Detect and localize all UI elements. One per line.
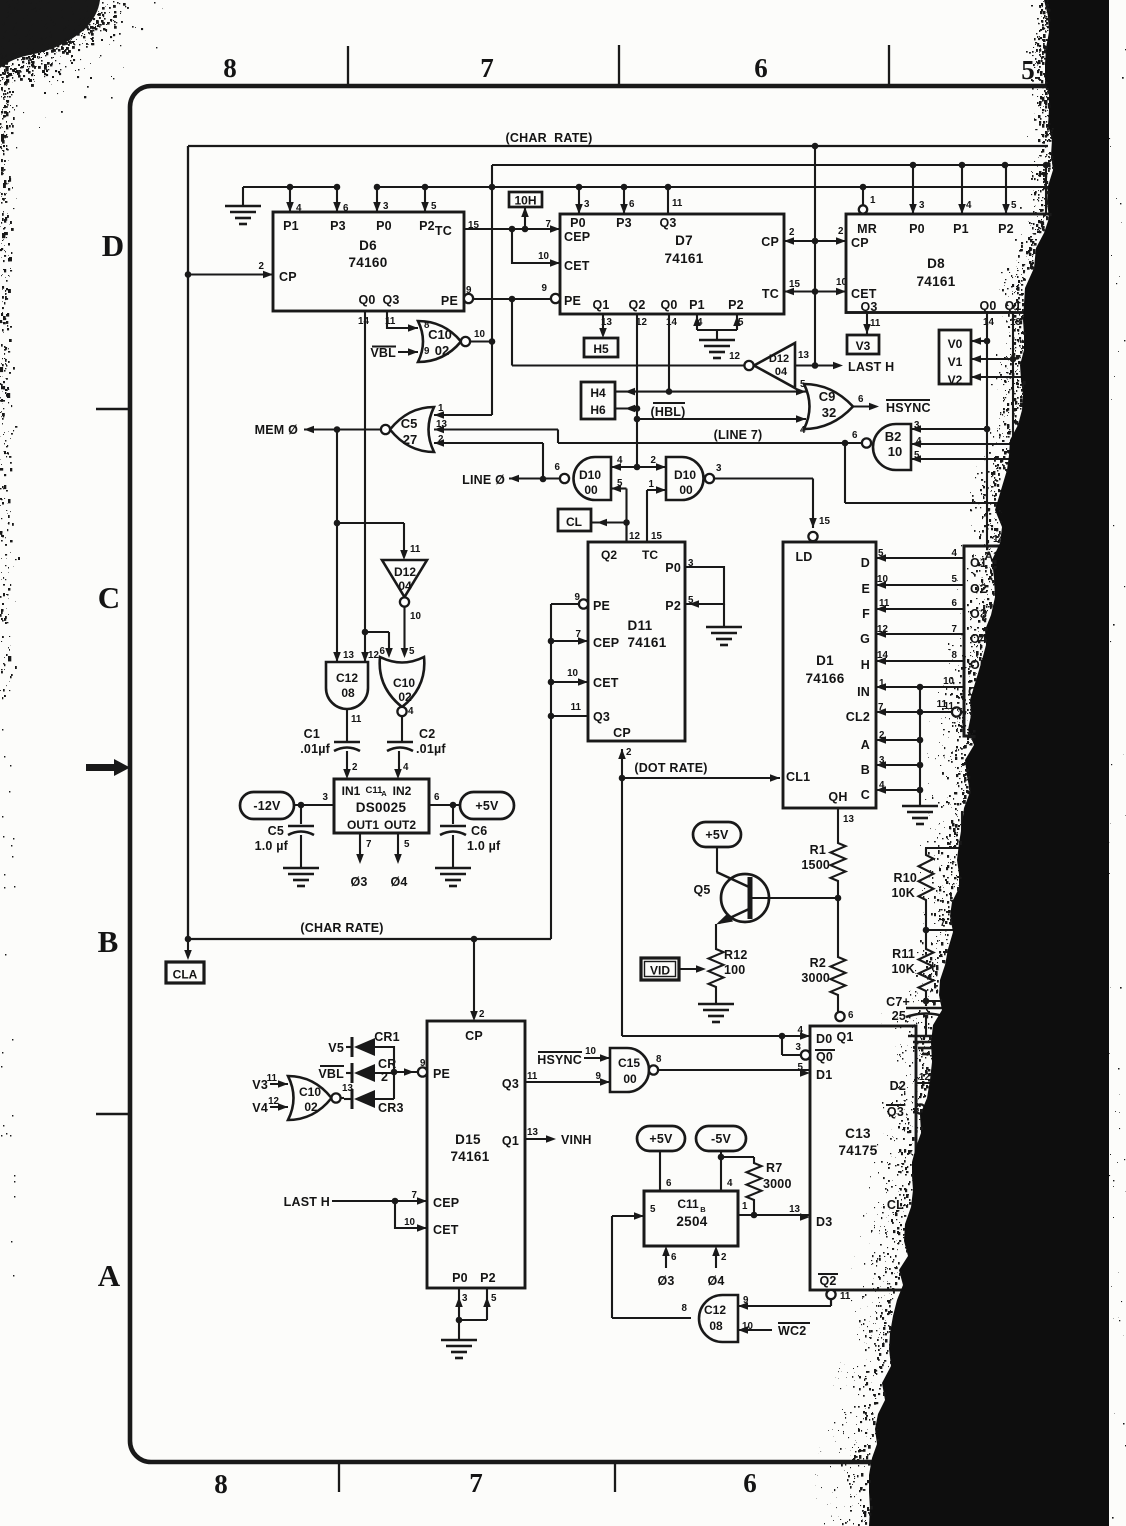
wire D6 CP xyxy=(185,271,273,279)
wire D11 CEP xyxy=(551,637,588,645)
wire D7 preset taps xyxy=(575,187,668,214)
wire G to O4 xyxy=(876,630,964,638)
nor-gate C5 27 (MEM phase) xyxy=(381,403,448,452)
svg-text:1: 1 xyxy=(870,195,876,206)
svg-text:E: E xyxy=(861,582,870,596)
wire to CLA xyxy=(184,939,192,960)
wire branch to C10 pin6 xyxy=(365,632,393,658)
capacitor C5 1.0uf xyxy=(255,805,314,868)
wire D15 P0/P2 to ground xyxy=(455,1288,491,1340)
svg-text:C12: C12 xyxy=(336,671,358,685)
svg-text:TC: TC xyxy=(642,548,658,562)
svg-text:.01µf: .01µf xyxy=(416,742,446,756)
svg-text:1: 1 xyxy=(742,1201,748,1212)
wire D0 run xyxy=(622,1035,782,1037)
svg-text:10: 10 xyxy=(538,251,549,262)
svg-text:5: 5 xyxy=(491,1293,497,1304)
svg-text:5: 5 xyxy=(1011,200,1017,211)
node LINE phase xyxy=(462,473,560,487)
svg-text:R12: R12 xyxy=(724,948,748,962)
wire A tap xyxy=(876,736,923,744)
wire C5 pin13 (from B2) xyxy=(434,426,558,443)
wire D7 P1 P2 to ground xyxy=(693,314,741,340)
svg-text:9: 9 xyxy=(542,283,548,294)
resistor R7 3000 xyxy=(721,1157,792,1218)
svg-text:2: 2 xyxy=(352,762,358,773)
svg-text:G: G xyxy=(860,632,870,646)
svg-text:C5: C5 xyxy=(401,416,418,431)
wire V2 xyxy=(971,373,1032,381)
svg-text:LINE Ø: LINE Ø xyxy=(462,473,505,487)
wire D8 preset taps xyxy=(909,165,1046,214)
svg-text:P0: P0 xyxy=(909,222,925,236)
svg-text:10K: 10K xyxy=(891,962,915,976)
capacitor C2 .01uf xyxy=(387,727,446,756)
node 10H xyxy=(509,192,542,208)
svg-text:D3: D3 xyxy=(816,1215,832,1229)
svg-text:25: 25 xyxy=(892,1009,906,1023)
flip-flop C13 74175 xyxy=(789,1010,939,1302)
wire D11 Q3 xyxy=(551,715,588,717)
svg-text:H4: H4 xyxy=(590,386,606,400)
svg-text:V5: V5 xyxy=(328,1041,344,1055)
wire CL xyxy=(916,1201,955,1203)
svg-text:Q5: Q5 xyxy=(693,883,710,897)
wire R10 top xyxy=(925,812,965,851)
resistor R12 100 xyxy=(709,946,748,990)
power -5V (2504) xyxy=(696,1126,746,1151)
svg-text:74161: 74161 xyxy=(664,251,703,266)
svg-text:6: 6 xyxy=(848,1010,854,1021)
svg-text:PE: PE xyxy=(433,1067,450,1081)
svg-text:2: 2 xyxy=(651,455,657,466)
wire -12V to pin3 xyxy=(294,792,334,808)
svg-text:C11: C11 xyxy=(677,1197,699,1211)
svg-text:D11: D11 xyxy=(628,618,653,633)
svg-text:74175: 74175 xyxy=(838,1143,877,1158)
svg-text:C9: C9 xyxy=(819,389,836,404)
svg-text:R2: R2 xyxy=(810,956,826,970)
svg-text:P2: P2 xyxy=(480,1271,496,1285)
svg-text:MEM Ø: MEM Ø xyxy=(255,423,298,437)
node VINH xyxy=(525,1133,592,1147)
svg-text:14: 14 xyxy=(666,317,677,328)
diode CR2 xyxy=(318,1057,396,1084)
wire QH to R1 xyxy=(838,808,854,840)
ground (D11 P2) xyxy=(706,627,742,645)
wire C12b pin9 xyxy=(738,1299,831,1310)
node VBL input xyxy=(370,346,418,360)
ground (C7) xyxy=(908,1036,944,1054)
svg-text:Q3: Q3 xyxy=(887,1105,904,1119)
svg-text:CL2: CL2 xyxy=(846,710,870,724)
svg-text:2: 2 xyxy=(838,226,844,237)
and-gate C12 08 (phase A) xyxy=(326,650,379,725)
svg-text:+5V: +5V xyxy=(475,799,499,813)
wire +5V to pin6 xyxy=(660,1151,672,1191)
svg-text:D15: D15 xyxy=(455,1132,481,1147)
svg-text:1.0 µf: 1.0 µf xyxy=(255,839,289,853)
svg-text:C7+: C7+ xyxy=(886,995,910,1009)
ground (R12) xyxy=(698,1004,734,1022)
svg-text:CP: CP xyxy=(465,1029,483,1043)
svg-text:9: 9 xyxy=(424,346,430,357)
svg-text:7: 7 xyxy=(412,1190,418,1201)
node phase 3 output xyxy=(350,833,372,889)
wire V0 from Q0 xyxy=(971,337,987,345)
svg-text:-5V: -5V xyxy=(711,1132,732,1146)
svg-text:P1: P1 xyxy=(283,219,299,233)
svg-text:4: 4 xyxy=(727,1178,733,1189)
wire D8 Q1 column xyxy=(1010,313,1017,547)
svg-text:12: 12 xyxy=(629,531,640,542)
svg-text:12: 12 xyxy=(729,351,740,362)
svg-text:Q2: Q2 xyxy=(628,298,645,312)
wire diode bus to PE xyxy=(391,1046,426,1099)
svg-text:3: 3 xyxy=(919,200,925,211)
svg-text:F: F xyxy=(862,607,870,621)
svg-text:P0: P0 xyxy=(376,219,392,233)
svg-text:OUT1: OUT1 xyxy=(347,818,379,832)
wire LINE7 branch down xyxy=(845,443,1012,503)
svg-text:Q2: Q2 xyxy=(601,548,617,562)
wire Q3bar xyxy=(925,1108,960,1110)
capacitor C6 1.0uf xyxy=(440,805,501,868)
svg-text:6: 6 xyxy=(666,1178,672,1189)
svg-text:D1: D1 xyxy=(816,653,834,668)
node V3 input xyxy=(252,1078,288,1092)
wire B2 pin3 xyxy=(911,425,987,433)
wire LINE7 net xyxy=(558,428,862,446)
wire D10b output to LD xyxy=(714,479,817,529)
svg-text:5: 5 xyxy=(409,646,415,657)
svg-text:R7: R7 xyxy=(766,1161,782,1175)
wire CHAR RATE bottom run xyxy=(185,921,551,942)
svg-text:C5: C5 xyxy=(268,824,284,838)
inverter D12 04 (dot clock) xyxy=(382,544,427,622)
svg-text:00: 00 xyxy=(584,483,598,497)
wire CP to D15 xyxy=(470,939,478,1021)
svg-text:V0: V0 xyxy=(948,337,963,351)
wire B2 pin4 xyxy=(911,440,1013,448)
svg-text:7: 7 xyxy=(546,219,552,230)
svg-text:P0: P0 xyxy=(452,1271,468,1285)
svg-text:V4: V4 xyxy=(252,1101,268,1115)
inverter D12 04 (LAST H) xyxy=(729,343,809,388)
svg-text:7: 7 xyxy=(469,1468,483,1498)
wire R1-R2 node xyxy=(835,884,842,954)
svg-text:CET: CET xyxy=(593,676,619,690)
svg-text:D12: D12 xyxy=(769,353,789,365)
svg-text:2: 2 xyxy=(626,747,632,758)
wire H6 tap xyxy=(615,405,637,413)
wire D10a pin5 xyxy=(611,485,630,542)
svg-text:CEP: CEP xyxy=(593,636,619,650)
wire pin6 to +5V xyxy=(429,792,460,808)
wire D6 Q0 column xyxy=(362,311,369,662)
wire R2 to Q1 xyxy=(837,998,839,1012)
svg-text:C10: C10 xyxy=(393,676,415,690)
svg-text:CL1: CL1 xyxy=(786,770,810,784)
wire C10 output to bus xyxy=(470,340,492,342)
svg-text:1500: 1500 xyxy=(801,858,830,872)
svg-text:11: 11 xyxy=(527,1071,538,1082)
and-gate C12 08 (write gate) xyxy=(682,1295,754,1342)
wire D0 feedback xyxy=(779,1032,810,1055)
node (HBL) xyxy=(650,403,685,419)
svg-text:6: 6 xyxy=(555,462,561,473)
svg-text:10: 10 xyxy=(474,329,485,340)
svg-text:02: 02 xyxy=(435,343,449,358)
svg-text:CET: CET xyxy=(564,259,590,273)
svg-text:D10: D10 xyxy=(674,468,696,482)
wire C10c output to CR3 xyxy=(341,1098,345,1099)
svg-text:2: 2 xyxy=(789,227,795,238)
svg-text:P1: P1 xyxy=(689,298,705,312)
svg-text:14: 14 xyxy=(358,316,369,327)
wire C9 pin4 net xyxy=(637,415,806,436)
svg-text:74160: 74160 xyxy=(348,255,387,270)
svg-text:04: 04 xyxy=(775,366,788,378)
wire B tap xyxy=(876,761,923,769)
svg-text:D0: D0 xyxy=(816,1032,832,1046)
svg-text:11: 11 xyxy=(571,702,582,713)
svg-text:D6: D6 xyxy=(359,238,377,253)
svg-text:Q1: Q1 xyxy=(502,1134,519,1148)
svg-text:LAST H: LAST H xyxy=(848,360,894,374)
wire C12a output xyxy=(346,709,348,741)
wire H to O5 xyxy=(876,657,964,665)
svg-text:11: 11 xyxy=(870,318,881,329)
ground (C5) xyxy=(283,868,319,886)
svg-text:A: A xyxy=(381,789,387,798)
svg-text:H: H xyxy=(861,658,870,672)
wire E to O2 xyxy=(876,581,964,589)
nand-gate D10 00 (LINE phase) xyxy=(555,455,623,500)
wire ABC column xyxy=(919,687,921,806)
svg-text:CLA: CLA xyxy=(173,968,198,982)
nand-gate C15 00 xyxy=(585,1046,662,1092)
ground (D1 inputs) xyxy=(902,806,938,824)
svg-text:CEP: CEP xyxy=(564,230,590,244)
wire R12 to ground xyxy=(715,990,717,1004)
svg-text:10: 10 xyxy=(410,611,421,622)
counter D11 74161 xyxy=(567,531,694,758)
wire V1 from Q1 xyxy=(971,355,1013,363)
svg-text:4: 4 xyxy=(966,200,972,211)
wire bus P-inputs lower (D6/D7/MR) xyxy=(243,184,1056,191)
wire C12a inputs arrows xyxy=(333,652,369,662)
svg-text:02: 02 xyxy=(398,690,412,704)
svg-text:5: 5 xyxy=(431,201,437,212)
svg-text:6: 6 xyxy=(858,394,864,405)
ground (D7 P1/P2) xyxy=(699,340,735,358)
svg-text:VBL: VBL xyxy=(370,346,396,360)
wire D8 MR tap xyxy=(862,187,864,205)
wire D7 Q2 column xyxy=(634,314,641,470)
svg-text:B2: B2 xyxy=(885,429,902,444)
svg-text:9: 9 xyxy=(420,1058,426,1069)
wire Q5 base xyxy=(753,897,839,899)
svg-text:CP: CP xyxy=(851,236,869,250)
wire H4 net (Q0 to C9 pin5) xyxy=(615,379,806,395)
svg-text:C15: C15 xyxy=(618,1056,640,1070)
svg-text:7: 7 xyxy=(366,839,372,850)
svg-text:32: 32 xyxy=(822,405,836,420)
svg-text:CL: CL xyxy=(566,515,582,529)
svg-text:CP: CP xyxy=(279,270,297,284)
nand-gate D10 00 (LD driver) xyxy=(649,455,722,500)
svg-text:00: 00 xyxy=(679,483,693,497)
svg-text:13: 13 xyxy=(343,650,354,661)
svg-text:+5V: +5V xyxy=(705,828,729,842)
svg-text:TC: TC xyxy=(435,224,452,238)
svg-text:10: 10 xyxy=(585,1046,596,1057)
svg-text:D8: D8 xyxy=(927,256,945,271)
svg-text:H6: H6 xyxy=(590,403,606,417)
power +5V (clock driver) xyxy=(460,792,514,819)
wire B2 output xyxy=(845,442,862,444)
svg-text:(CHAR RATE): (CHAR RATE) xyxy=(506,131,593,145)
power +5V (video) xyxy=(693,822,741,847)
svg-text:Q3: Q3 xyxy=(659,216,676,230)
wire D11 Q2 stub xyxy=(625,523,627,543)
svg-text:B: B xyxy=(861,763,870,777)
shift-register D1 74166 xyxy=(783,516,890,808)
ground (D15) xyxy=(441,1340,477,1358)
node DOT RATE xyxy=(622,761,780,782)
node V3 xyxy=(847,335,879,354)
svg-text:B: B xyxy=(98,924,119,959)
ground (D6 preset bus) xyxy=(225,187,261,224)
svg-text:74161: 74161 xyxy=(627,635,666,650)
svg-text:10: 10 xyxy=(943,676,954,687)
node WC2 input xyxy=(738,1323,810,1338)
svg-text:10: 10 xyxy=(567,668,578,679)
svg-text:Q3: Q3 xyxy=(502,1077,519,1091)
svg-text:(CHAR RATE): (CHAR RATE) xyxy=(300,921,383,935)
svg-text:8: 8 xyxy=(424,320,430,331)
svg-text:74161: 74161 xyxy=(450,1149,489,1164)
svg-text:Q1: Q1 xyxy=(836,1030,853,1044)
ground (C6) xyxy=(435,868,471,886)
svg-text:Q3: Q3 xyxy=(593,710,610,724)
svg-text:PE: PE xyxy=(441,294,458,308)
diode CR1 xyxy=(328,1030,400,1057)
svg-text:3: 3 xyxy=(716,463,722,474)
wire D10b pin2 xyxy=(637,463,666,471)
svg-text:13: 13 xyxy=(843,814,854,825)
svg-text:IN: IN xyxy=(857,685,870,699)
svg-text:P1: P1 xyxy=(953,222,969,236)
svg-text:11: 11 xyxy=(840,1291,851,1302)
wire C5 pin1 xyxy=(434,411,492,419)
node CLA xyxy=(166,962,204,983)
svg-text:OUT2: OUT2 xyxy=(384,818,416,832)
svg-text:D12: D12 xyxy=(394,565,416,579)
wire D7 Q0 column xyxy=(666,314,673,395)
wire D11 P0/P2 to ground xyxy=(685,567,724,627)
node V0 V1 V2 box xyxy=(939,330,971,387)
svg-text:5: 5 xyxy=(650,1204,656,1215)
svg-text:1: 1 xyxy=(649,479,655,490)
svg-text:74161: 74161 xyxy=(916,274,955,289)
wire dot-rate column to D0 xyxy=(621,778,623,1036)
svg-text:CP: CP xyxy=(613,726,631,740)
wire D10a pin4 xyxy=(611,463,637,471)
wire IN to GND pin xyxy=(876,683,964,691)
svg-text:HSYNC: HSYNC xyxy=(886,401,931,415)
svg-text:4: 4 xyxy=(296,203,302,214)
svg-text:A: A xyxy=(98,1258,121,1293)
svg-text:C12: C12 xyxy=(704,1303,726,1317)
svg-text:2: 2 xyxy=(259,261,265,272)
svg-text:P2: P2 xyxy=(998,222,1014,236)
svg-text:P2: P2 xyxy=(728,298,744,312)
transistor Q5 xyxy=(693,847,769,946)
svg-text:2504: 2504 xyxy=(676,1214,707,1229)
svg-text:12: 12 xyxy=(368,650,379,661)
wire D11 CET xyxy=(551,678,588,686)
svg-text:O4: O4 xyxy=(970,632,987,646)
svg-text:02: 02 xyxy=(304,1100,318,1114)
svg-text:5: 5 xyxy=(404,839,410,850)
svg-text:6: 6 xyxy=(952,598,958,609)
svg-text:11: 11 xyxy=(672,198,683,209)
wire CP net D7-D8 xyxy=(784,226,846,245)
node V4 input xyxy=(252,1101,288,1115)
wire B2 pin5 xyxy=(911,455,1032,463)
capacitor C7 25 xyxy=(886,995,946,1036)
svg-text:WC2: WC2 xyxy=(778,1324,806,1338)
svg-text:C10: C10 xyxy=(299,1085,321,1099)
wire PE net (D6-D7, from LAST H) xyxy=(473,296,551,366)
svg-text:V2: V2 xyxy=(948,373,963,387)
svg-text:14: 14 xyxy=(983,317,994,328)
svg-text:Q1: Q1 xyxy=(592,298,609,312)
wire D7 Q1 to H5 xyxy=(599,314,607,338)
svg-text:V1: V1 xyxy=(948,355,963,369)
svg-text:CET: CET xyxy=(433,1223,459,1237)
wire bus P-inputs upper (to D8 P0-P3) xyxy=(489,162,1050,415)
svg-text:3: 3 xyxy=(323,792,329,803)
svg-text:6: 6 xyxy=(754,53,768,83)
svg-text:4: 4 xyxy=(403,762,409,773)
svg-text:Q3: Q3 xyxy=(860,300,877,314)
wire D11 PE xyxy=(551,603,579,605)
wire D15 Q3 to C15 xyxy=(525,1078,610,1086)
svg-text:3: 3 xyxy=(383,201,389,212)
svg-text:Q0: Q0 xyxy=(979,299,996,313)
ic A1 (under blotch) xyxy=(943,534,1058,736)
node H4 H6 box xyxy=(581,382,615,419)
power -12V xyxy=(240,792,294,819)
svg-text:8: 8 xyxy=(656,1054,662,1065)
svg-text:10: 10 xyxy=(404,1217,415,1228)
wire D12 input from clock column xyxy=(795,362,818,369)
nand-gate B2 10 xyxy=(852,420,922,470)
svg-text:R10: R10 xyxy=(893,871,917,885)
svg-text:IN1: IN1 xyxy=(342,784,361,798)
svg-text:6: 6 xyxy=(671,1252,677,1263)
wire D11 enable column xyxy=(548,604,555,939)
wire C tap xyxy=(876,786,923,794)
wire C5 pin2 (LINE phase) xyxy=(434,439,546,482)
node H5 xyxy=(584,338,618,357)
svg-text:VINH: VINH xyxy=(561,1133,592,1147)
svg-text:HSYNC: HSYNC xyxy=(537,1053,582,1067)
wire C2 to IN2 xyxy=(394,751,409,779)
